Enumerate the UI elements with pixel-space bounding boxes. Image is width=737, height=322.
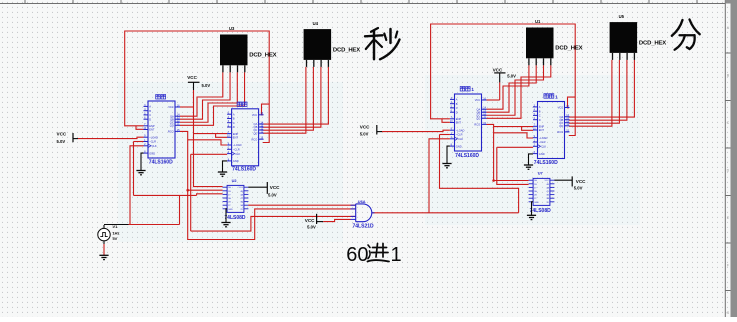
svg-text:GND: GND	[534, 202, 539, 204]
svg-text:DCD_HEX: DCD_HEX	[333, 47, 360, 53]
svg-text:U2: U2	[232, 178, 238, 183]
svg-text:U7: U7	[538, 170, 543, 175]
svg-text:CLK: CLK	[235, 152, 240, 156]
svg-text:5.0V: 5.0V	[574, 185, 583, 190]
svg-text:GND: GND	[233, 159, 239, 163]
svg-text:VCC: VCC	[305, 218, 315, 223]
svg-text:1: 1	[391, 244, 402, 266]
svg-text:5.0V: 5.0V	[268, 193, 277, 198]
svg-text:74LS160D: 74LS160D	[534, 160, 558, 166]
svg-text:ENP: ENP	[539, 125, 545, 129]
svg-text:VCC: VCC	[558, 106, 564, 110]
svg-text:ENT: ENT	[149, 128, 155, 132]
svg-text:V1: V1	[113, 224, 119, 229]
svg-text:RCO: RCO	[474, 123, 480, 127]
svg-text:D: D	[456, 110, 458, 114]
svg-text:CLK: CLK	[541, 145, 546, 149]
svg-text:ENP: ENP	[233, 132, 239, 136]
svg-text:VCC: VCC	[270, 185, 280, 190]
svg-text:ENT: ENT	[456, 121, 462, 125]
svg-text:5.0V: 5.0V	[360, 132, 369, 137]
svg-text:1: 1	[555, 94, 558, 99]
svg-text:U5: U5	[619, 14, 625, 19]
svg-text:74LS08D: 74LS08D	[224, 215, 246, 221]
svg-text:QD: QD	[170, 124, 174, 128]
svg-text:~LOAD: ~LOAD	[456, 128, 465, 132]
svg-text:C: C	[539, 114, 541, 118]
svg-text:G: G	[727, 311, 730, 315]
svg-text:ENT: ENT	[233, 136, 239, 140]
svg-text:D: D	[727, 169, 730, 173]
svg-text:5.0V: 5.0V	[307, 224, 316, 229]
svg-text:1: 1	[471, 87, 474, 92]
svg-text:ENP: ENP	[149, 124, 155, 128]
svg-text:GND: GND	[149, 151, 155, 155]
svg-text:RCO: RCO	[168, 130, 174, 134]
svg-text:B: B	[233, 117, 235, 121]
svg-text:A: A	[149, 105, 151, 109]
svg-text:QD: QD	[253, 131, 257, 135]
svg-text:5.0V: 5.0V	[57, 139, 66, 144]
svg-text:VCC: VCC	[168, 105, 174, 109]
svg-text:~CLR: ~CLR	[233, 148, 240, 152]
svg-text:C: C	[149, 113, 151, 117]
svg-text:VCC: VCC	[576, 179, 586, 184]
svg-text:C: C	[233, 121, 235, 125]
svg-text:74LS21D: 74LS21D	[353, 223, 375, 229]
svg-text:RCO: RCO	[252, 137, 258, 141]
svg-text:C: C	[456, 106, 458, 110]
svg-text:VCC: VCC	[252, 113, 258, 117]
svg-text:60: 60	[346, 244, 368, 266]
svg-text:B: B	[539, 109, 541, 113]
svg-text:A: A	[233, 112, 235, 116]
svg-text:D: D	[149, 117, 151, 121]
svg-text:RCO: RCO	[557, 130, 563, 134]
svg-text:VCC: VCC	[57, 132, 67, 137]
svg-text:74LS160D: 74LS160D	[455, 153, 479, 159]
svg-text:U3: U3	[229, 26, 235, 31]
svg-text:CLK: CLK	[458, 137, 463, 141]
svg-text:74LS160D: 74LS160D	[149, 160, 173, 166]
svg-text:74LS08D: 74LS08D	[530, 208, 552, 214]
svg-text:DCD_HEX: DCD_HEX	[639, 40, 666, 46]
svg-text:VCC: VCC	[239, 187, 244, 189]
svg-text:5.0V: 5.0V	[507, 74, 516, 79]
svg-text:ENT: ENT	[539, 128, 545, 132]
svg-text:~CLR: ~CLR	[149, 140, 156, 144]
svg-text:~LOAD: ~LOAD	[149, 135, 158, 139]
svg-text:~LOAD: ~LOAD	[539, 136, 548, 140]
svg-text:~CLR: ~CLR	[539, 140, 546, 144]
svg-text:DCD_HEX: DCD_HEX	[555, 46, 582, 52]
svg-text:U1: U1	[535, 19, 541, 24]
svg-text:C: C	[727, 121, 730, 125]
svg-text:A: A	[456, 98, 458, 102]
svg-text:GND: GND	[456, 144, 462, 148]
svg-text:VCC: VCC	[360, 124, 370, 129]
svg-text:A: A	[539, 105, 541, 109]
svg-text:QD: QD	[559, 124, 563, 128]
svg-text:D: D	[233, 125, 235, 129]
svg-text:1Hz: 1Hz	[113, 230, 120, 235]
svg-text:GND: GND	[539, 152, 545, 156]
svg-text:VCC: VCC	[475, 98, 481, 102]
svg-text:D: D	[539, 118, 541, 122]
svg-text:5V: 5V	[113, 236, 118, 241]
svg-text:5.0V: 5.0V	[202, 83, 211, 88]
svg-text:GND: GND	[228, 209, 233, 211]
svg-text:DCD_HEX: DCD_HEX	[249, 53, 276, 59]
svg-text:~LOAD: ~LOAD	[233, 143, 242, 147]
svg-text:CLK: CLK	[152, 144, 157, 148]
svg-text:VCC: VCC	[493, 67, 503, 72]
svg-text:~CLR: ~CLR	[456, 133, 463, 137]
svg-text:ENP: ENP	[456, 117, 462, 121]
svg-text:VCC: VCC	[545, 180, 550, 182]
svg-text:VCC: VCC	[187, 75, 197, 80]
svg-text:B: B	[456, 102, 458, 106]
svg-text:B: B	[149, 109, 151, 113]
svg-text:QD: QD	[476, 117, 480, 121]
svg-text:U4: U4	[313, 21, 319, 26]
svg-text:74LS160D: 74LS160D	[232, 167, 256, 173]
